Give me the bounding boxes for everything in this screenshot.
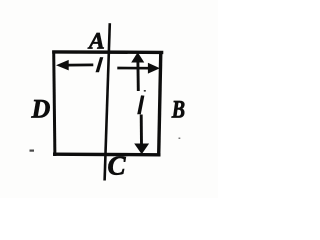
square loop: right edge [159, 52, 161, 156]
dimension arrow left (shaft) [68, 64, 94, 67]
speck right of vertical l label [144, 90, 146, 92]
arrowhead left [56, 60, 69, 71]
dimension arrow right (shaft) [117, 67, 150, 70]
square loop: bottom edge [53, 152, 161, 156]
wire (straight conductor through A and C) [105, 23, 110, 180]
label l (vertical side length) [137, 95, 144, 114]
dimension arrow down (shaft) [140, 115, 143, 146]
arrowhead up [131, 52, 144, 62]
svg-text:A: A [87, 28, 105, 54]
arrowhead right [148, 63, 160, 74]
svg-text:B: B [171, 95, 185, 123]
svg-text:C: C [108, 151, 127, 181]
arrowhead down [134, 144, 149, 155]
label l (horizontal side length) [96, 57, 104, 72]
dimension arrow up (shaft) [136, 62, 139, 92]
square loop: left edge [54, 51, 55, 157]
speck below B [179, 138, 181, 140]
square loop: top edge [52, 50, 163, 54]
speck near bottom-left corner [30, 150, 35, 152]
svg-text:D: D [31, 95, 51, 124]
